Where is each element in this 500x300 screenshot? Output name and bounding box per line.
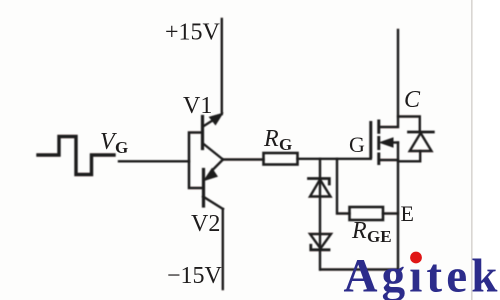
svg-text:−15V: −15V <box>167 263 223 289</box>
logo red dot <box>410 252 422 264</box>
IGBT V <box>371 121 398 164</box>
transistor V1 <box>203 113 224 159</box>
wire collector <box>379 30 398 127</box>
wire RG to gate <box>298 158 371 160</box>
svg-text:+15V: +15V <box>165 20 221 46</box>
wire RGE to emitter line <box>383 212 398 214</box>
svg-text:V2: V2 <box>191 211 220 237</box>
wire input <box>119 160 189 162</box>
diode VD freewheel <box>398 117 433 162</box>
wire -15V supply <box>222 209 224 289</box>
svg-text:C: C <box>404 87 421 113</box>
diode VD1 zener <box>309 179 331 197</box>
svg-text:G: G <box>279 135 292 154</box>
diode VD2 zener <box>310 234 331 250</box>
svg-text:R: R <box>351 218 367 244</box>
resistor RGE <box>350 207 384 220</box>
transistor V2 <box>203 160 223 210</box>
svg-text:G: G <box>115 138 128 157</box>
resistor RG <box>264 153 298 165</box>
wire bottom rail <box>320 268 398 270</box>
svg-text:G: G <box>349 132 365 157</box>
wire RGE branch <box>337 159 350 214</box>
page edge line <box>471 0 473 300</box>
input pulse waveform <box>38 137 114 175</box>
wire output node to RG <box>223 158 264 160</box>
wire emitter <box>397 143 399 270</box>
svg-text:R: R <box>263 126 279 152</box>
svg-text:GE: GE <box>367 227 392 246</box>
wire +15V supply <box>221 19 223 114</box>
svg-text:V1: V1 <box>183 93 212 119</box>
svg-text:E: E <box>401 201 414 226</box>
wire diode branch <box>319 159 321 270</box>
wire base bracket <box>189 133 204 189</box>
